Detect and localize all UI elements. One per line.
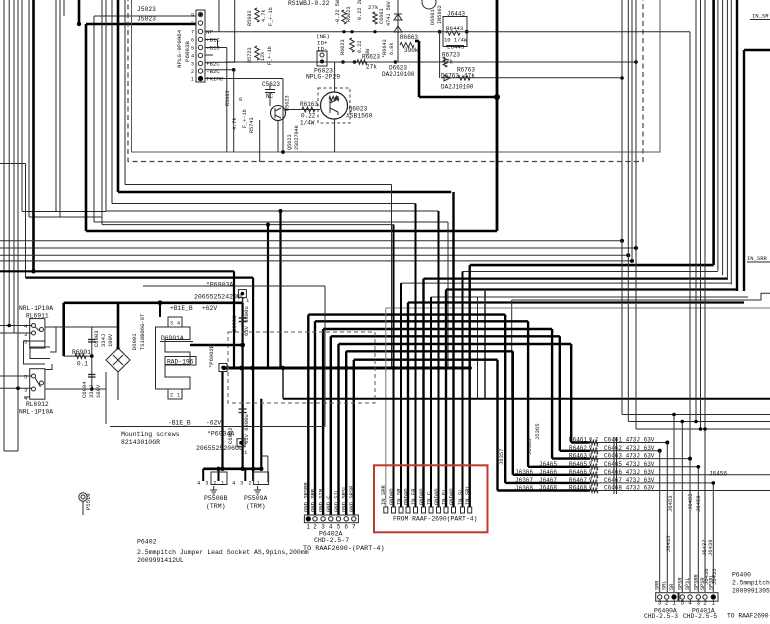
- svg-text:#SB1560: #SB1560: [346, 113, 373, 120]
- svg-text:D6601: D6601: [430, 9, 436, 25]
- svg-text:R6467: R6467: [569, 477, 587, 484]
- svg-text:*P6903A: *P6903A: [206, 282, 233, 289]
- svg-text:CHD-2.5-3: CHD-2.5-3: [644, 613, 678, 620]
- svg-text:2065525206UL: 2065525206UL: [196, 445, 243, 452]
- svg-text:TO RAAF2690-(PART-4): TO RAAF2690-(PART-4): [303, 545, 385, 553]
- svg-text:0.2: 0.2: [589, 452, 598, 458]
- svg-text:R5683: R5683: [247, 10, 253, 26]
- svg-text:390k: 390k: [404, 47, 419, 54]
- svg-text:J6357: J6357: [498, 448, 505, 465]
- svg-text:C5623: C5623: [262, 81, 280, 88]
- svg-text:3: 3: [240, 479, 243, 486]
- svg-text:1: 1: [191, 77, 194, 83]
- svg-text:J5023: J5023: [137, 16, 156, 23]
- svg-text:IN_C: IN_C: [425, 491, 432, 505]
- svg-text:3: 3: [191, 62, 194, 68]
- svg-text:R6468: R6468: [569, 485, 587, 492]
- svg-text:C6462 473J 63V: C6462 473J 63V: [604, 445, 655, 452]
- svg-text:GNDAD: GNDAD: [433, 488, 440, 505]
- svg-text:0.2: 0.2: [589, 436, 598, 442]
- svg-text:R6463: R6463: [569, 453, 587, 460]
- svg-text:6.8k: 6.8k: [389, 43, 395, 55]
- svg-text:20655252420UL: 20655252420UL: [194, 294, 245, 301]
- svg-text:J6365: J6365: [526, 438, 533, 455]
- svg-text:6: 6: [344, 524, 348, 531]
- svg-text:2: 2: [665, 600, 669, 607]
- svg-text:2.5mmpitch Jumper Lead Socket: 2.5mmpitch Jumper Lead Socket AS,9pins,2…: [137, 549, 309, 556]
- svg-text:5: 5: [24, 339, 27, 346]
- svg-text:IN5602: IN5602: [437, 5, 443, 24]
- svg-text:0.2: 0.2: [589, 461, 598, 467]
- svg-text:NRL-1P10A: NRL-1P10A: [19, 305, 53, 312]
- svg-text:IN_SL: IN_SL: [457, 488, 464, 505]
- svg-text:J6458: J6458: [695, 495, 702, 512]
- svg-text:TO RAAF2690-: TO RAAF2690-: [727, 613, 770, 620]
- svg-text:0.22: 0.22: [301, 113, 316, 120]
- svg-text:0.1: 0.1: [77, 361, 88, 368]
- svg-text:R6461: R6461: [569, 437, 587, 444]
- svg-text:GNDAD: GNDAD: [402, 488, 409, 505]
- svg-text:2: 2: [313, 524, 317, 531]
- svg-text:R6462: R6462: [569, 445, 587, 452]
- svg-text:5: 5: [680, 600, 684, 607]
- svg-text:P5510: P5510: [85, 493, 92, 510]
- svg-text:J6467: J6467: [539, 477, 557, 484]
- svg-text:CHD-2.5-5: CHD-2.5-5: [683, 613, 717, 620]
- svg-text:SR: SR: [669, 584, 675, 590]
- svg-text:D6901A: D6901A: [161, 335, 184, 342]
- svg-text:J6465: J6465: [539, 461, 557, 468]
- svg-text:C6603: C6603: [379, 8, 385, 24]
- svg-text:Q6023: Q6023: [349, 106, 368, 113]
- svg-text:J5365: J5365: [534, 423, 541, 440]
- svg-text:12k: 12k: [260, 52, 266, 61]
- svg-text:P5506B: P5506B: [204, 495, 228, 502]
- svg-text:NPLG-9P0964: NPLG-9P0964: [176, 29, 183, 68]
- svg-text:R6901: R6901: [72, 349, 91, 356]
- svg-text:Q5623: Q5623: [287, 134, 293, 150]
- svg-text:P6402: P6402: [137, 539, 157, 546]
- svg-text:7: 7: [352, 524, 356, 531]
- svg-text:IN_SR: IN_SR: [752, 13, 769, 20]
- svg-text:C6901: C6901: [231, 315, 238, 332]
- svg-text:SRL: SRL: [662, 581, 668, 590]
- svg-text:J6468: J6468: [539, 485, 557, 492]
- svg-text:27k: 27k: [366, 64, 377, 71]
- svg-text:GND_SRSR: GND_SRSR: [348, 485, 355, 512]
- svg-text:474J 50V: 474J 50V: [386, 0, 392, 26]
- svg-text:R5623: R5623: [285, 95, 291, 111]
- svg-text:IN_SRR: IN_SRR: [747, 255, 768, 262]
- svg-text:IN_SR: IN_SR: [395, 488, 402, 505]
- svg-text:-B1E_B: -B1E_B: [168, 420, 191, 427]
- svg-text:TS10B06G-8T: TS10B06G-8T: [139, 313, 146, 350]
- svg-text:-B2C: -B2C: [206, 68, 220, 75]
- svg-text:0: 0: [239, 97, 242, 103]
- svg-text:2: 2: [248, 479, 251, 486]
- svg-text:DA2J10100: DA2J10100: [382, 71, 415, 78]
- svg-text:J6455: J6455: [687, 493, 694, 510]
- svg-text:GNDAD: GNDAD: [448, 488, 455, 505]
- svg-text:GND_SIM: GND_SIM: [317, 489, 324, 512]
- svg-text:IN_FL: IN_FL: [440, 488, 447, 505]
- svg-text:3: 3: [658, 600, 662, 607]
- svg-text:R6023: R6023: [340, 39, 346, 55]
- svg-text:SPSR: SPSR: [700, 578, 706, 590]
- svg-text:0.2: 0.2: [589, 484, 598, 490]
- svg-text:1: 1: [711, 600, 715, 607]
- svg-text:100V: 100V: [107, 333, 114, 347]
- svg-text:1: 1: [177, 393, 180, 399]
- svg-text:2SD2704K: 2SD2704K: [294, 124, 300, 150]
- svg-text:GND_C: GND_C: [325, 495, 332, 512]
- svg-text:J5023: J5023: [137, 6, 156, 13]
- svg-text:3: 3: [170, 321, 173, 327]
- svg-text:R5743: R5743: [249, 117, 255, 133]
- svg-text:R6466: R6466: [569, 469, 587, 476]
- svg-text:NRL-1P10A: NRL-1P10A: [19, 409, 53, 416]
- svg-text:334J: 334J: [88, 385, 95, 398]
- svg-text:6: 6: [191, 38, 194, 44]
- svg-text:-0.22 5W: -0.22 5W: [335, 0, 341, 25]
- svg-text:C6902: C6902: [227, 427, 234, 444]
- svg-text:61V 6800u: 61V 6800u: [243, 414, 250, 444]
- svg-text:RS1WBJ-0.22: RS1WBJ-0.22: [288, 0, 330, 7]
- svg-text:8: 8: [191, 21, 194, 27]
- svg-text:4: 4: [329, 524, 333, 531]
- svg-text:3: 3: [205, 479, 208, 486]
- svg-text:C6468 473J 63V: C6468 473J 63V: [604, 485, 655, 492]
- svg-text:4.7k: 4.7k: [261, 10, 267, 22]
- svg-text:J6438: J6438: [707, 539, 714, 556]
- svg-text:J6453: J6453: [667, 495, 674, 512]
- svg-text:(TRM): (TRM): [246, 503, 266, 510]
- svg-text:SPSL: SPSL: [685, 578, 691, 590]
- svg-text:2: 2: [703, 600, 707, 607]
- svg-text:82143010GR: 82143010GR: [121, 439, 160, 446]
- svg-text:2: 2: [170, 393, 173, 399]
- svg-text:*P6902B: *P6902B: [208, 344, 215, 368]
- svg-text:R5723: R5723: [247, 47, 253, 63]
- svg-text:C6466 473J 63V: C6466 473J 63V: [604, 469, 655, 476]
- svg-text:P5509A: P5509A: [244, 495, 268, 502]
- svg-text:5: 5: [24, 374, 27, 381]
- svg-text:IN_SRR: IN_SRR: [380, 484, 387, 505]
- svg-text:4: 4: [191, 54, 194, 60]
- svg-text:63V 6800u: 63V 6800u: [243, 306, 250, 336]
- svg-text:CHD-2.5-7: CHD-2.5-7: [314, 537, 349, 544]
- svg-text:0.2: 0.2: [589, 445, 598, 451]
- svg-text:J6368: J6368: [515, 485, 533, 492]
- svg-text:J6433: J6433: [665, 535, 672, 552]
- svg-text:J6367: J6367: [515, 477, 533, 484]
- svg-text:GNDAD: GNDAD: [418, 488, 425, 505]
- svg-text:Mounting screws: Mounting screws: [121, 431, 180, 438]
- svg-text:F_+-1b: F_+-1b: [268, 7, 274, 26]
- svg-text:C6903: C6903: [93, 330, 100, 347]
- svg-text:1/4W: 1/4W: [300, 120, 315, 127]
- svg-text:+62V: +62V: [202, 305, 217, 312]
- svg-text:SPSR: SPSR: [677, 578, 683, 590]
- svg-text:FROM RAAF-2690(PART-4): FROM RAAF-2690(PART-4): [393, 516, 477, 523]
- svg-text:334J: 334J: [100, 334, 107, 347]
- svg-text:3: 3: [24, 331, 27, 338]
- svg-text:1: 1: [306, 524, 310, 531]
- svg-text:GNDAD: GNDAD: [388, 488, 395, 505]
- svg-text:C6461 473J 63V: C6461 473J 63V: [604, 437, 655, 444]
- svg-text:IN_FR: IN_FR: [410, 488, 417, 505]
- svg-text:100V: 100V: [95, 384, 102, 398]
- svg-text:D6901: D6901: [131, 333, 138, 350]
- svg-text:10 1/4W: 10 1/4W: [444, 37, 468, 44]
- svg-text:9: 9: [191, 13, 194, 19]
- svg-text:5: 5: [337, 524, 341, 531]
- svg-text:R6443: R6443: [446, 25, 464, 32]
- svg-text:SPSRR: SPSRR: [693, 574, 699, 590]
- svg-text:7: 7: [191, 30, 194, 36]
- svg-text:5: 5: [191, 46, 194, 52]
- svg-text:+B1E_B: +B1E_B: [170, 305, 193, 312]
- svg-text:4: 4: [688, 600, 692, 607]
- svg-text:4.7k: 4.7k: [232, 118, 238, 130]
- svg-text:1: 1: [672, 600, 676, 607]
- svg-text:DA2J10100: DA2J10100: [441, 84, 474, 91]
- svg-text:RL6912: RL6912: [26, 401, 49, 408]
- svg-text:SPSRL: SPSRL: [708, 574, 714, 590]
- svg-text:2009991412UL: 2009991412UL: [137, 557, 184, 564]
- svg-text:P6400: P6400: [732, 572, 751, 579]
- svg-text:GND_SRSL: GND_SRSL: [341, 486, 348, 512]
- svg-text:2: 2: [213, 479, 216, 486]
- svg-text:27k: 27k: [368, 4, 379, 11]
- svg-text:R6023: R6023: [346, 6, 352, 22]
- svg-text:2.5mmpitch: 2.5mmpitch: [732, 580, 770, 587]
- svg-text:*R6643: *R6643: [382, 39, 388, 58]
- svg-text:IN_SRL: IN_SRL: [464, 485, 471, 505]
- svg-text:C6463 473J 63V: C6463 473J 63V: [604, 453, 655, 460]
- svg-text:J6456: J6456: [709, 470, 727, 477]
- svg-text:P6003B: P6003B: [184, 41, 191, 62]
- svg-text:GND_SIL: GND_SIL: [333, 489, 340, 512]
- svg-text:(TRM): (TRM): [206, 503, 226, 510]
- svg-text:3: 3: [24, 387, 27, 394]
- svg-text:GND_SRR: GND_SRR: [309, 488, 316, 512]
- svg-text:3: 3: [696, 600, 700, 607]
- svg-text:0.2: 0.2: [589, 477, 598, 483]
- svg-text:J6366: J6366: [515, 469, 533, 476]
- svg-text:2009991395D: 2009991395D: [732, 588, 770, 595]
- svg-text:J6466: J6466: [539, 469, 557, 476]
- svg-text:F_+-1b: F_+-1b: [242, 109, 248, 128]
- svg-text:R6465: R6465: [569, 461, 587, 468]
- svg-text:0.2: 0.2: [589, 469, 598, 475]
- svg-text:SRR: SRR: [655, 581, 661, 590]
- svg-text:3: 3: [321, 524, 325, 531]
- svg-text:RAD-196: RAD-196: [167, 359, 194, 366]
- svg-text:2: 2: [191, 69, 194, 75]
- svg-text:0.22: 0.22: [357, 41, 363, 53]
- svg-text:+B2C: +B2C: [206, 61, 220, 68]
- svg-text:L6443: L6443: [447, 44, 465, 51]
- svg-text:R5883: R5883: [225, 90, 231, 106]
- svg-text:-62V: -62V: [206, 420, 221, 427]
- svg-text:C6465 473J 63V: C6465 473J 63V: [604, 461, 655, 468]
- svg-text:4: 4: [177, 321, 180, 327]
- svg-text:0.22 2W: 0.22 2W: [357, 0, 363, 20]
- svg-text:C6467 473J 63V: C6467 473J 63V: [604, 477, 655, 484]
